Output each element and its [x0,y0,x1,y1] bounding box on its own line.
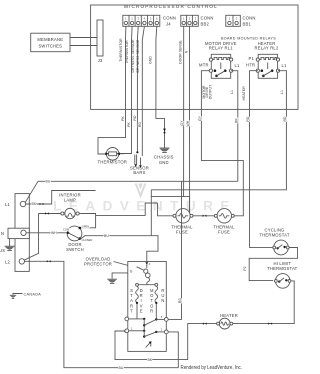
motor terminal 2 [156,327,168,333]
hi limit thermostat [275,274,291,289]
svg-text:BK: BK [32,202,37,206]
svg-text:OUTPUT: OUTPUT [208,85,212,100]
wire door sense row [151,196,183,198]
splice on ground wire [163,129,166,134]
svg-text:G: G [130,270,133,274]
heater element [217,318,233,329]
connector on lamp left wire [45,212,49,214]
svg-text:THERMOSTAT: THERMOSTAT [267,266,297,271]
svg-text:GY: GY [180,120,184,126]
svg-text:BOARD MOUNTED RELAYS: BOARD MOUNTED RELAYS [221,37,276,41]
wire membrane to J3 upper [70,37,97,39]
svg-text:LAMP: LAMP [64,197,76,202]
svg-text:L1: L1 [282,63,288,68]
motor terminal 5 [156,315,168,321]
terminal N [21,230,26,235]
svg-text:L1: L1 [280,90,284,94]
wire lamp right riser to door open [81,214,96,228]
svg-text:THERMISTOR: THERMISTOR [125,40,129,64]
svg-text:N: N [185,50,189,53]
svg-text:MEMBRANE: MEMBRANE [37,37,63,42]
wire lamp left to L2 riser [39,213,61,215]
N terminal box [8,228,29,238]
svg-text:RD: RD [283,116,287,122]
terminal L1 [20,201,25,206]
svg-text:RD: RD [178,298,182,304]
wire J4 pin6 GND to chassis ground [156,26,165,147]
wire RL2 HTR down to cycling thermostat [250,71,274,248]
svg-text:THERMISTOR: THERMISTOR [119,38,123,62]
svg-text:US: US [0,248,5,253]
wire fuse1 to fuse2 [193,215,216,217]
svg-text:DRYNESS SENSOR: DRYNESS SENSOR [131,39,135,72]
svg-text:CONN: CONN [163,16,176,21]
US ground symbol [5,239,15,251]
wire J4 pin1 to thermistor left [98,26,126,154]
thermistor R1 [101,148,124,161]
svg-text:SWITCHES: SWITCHES [38,44,62,49]
svg-text:P1: P1 [249,56,255,61]
svg-text:L1: L1 [235,63,241,68]
svg-text:BU: BU [119,366,124,370]
sensor bar 2 [139,158,142,169]
svg-text:HTR: HTR [246,63,255,68]
wire BU row L1 feed [38,180,238,182]
svg-text:CANADA: CANADA [24,292,42,296]
svg-text:MICROPROCESSOR CONTROL: MICROPROCESSOR CONTROL [124,4,218,9]
motor terminal 4 arrow [145,262,148,265]
run winding [155,286,158,303]
motor G terminal circle and row [125,317,145,321]
wire L2 row to bottom [25,261,179,367]
svg-text:L2: L2 [5,260,11,265]
thermal fuse F2 [214,209,234,223]
wire RL1 L1 side down to BU row [231,71,238,182]
svg-text:SWITCH: SWITCH [66,247,84,252]
centrifugal actuator lever [146,341,152,347]
wire motor terminal 5 riser to BU row [168,181,181,319]
svg-text:DRYNESS SENSOR: DRYNESS SENSOR [136,39,140,72]
connector on heater right wire [268,323,272,325]
overload protector device [137,264,151,285]
svg-text:CONN: CONN [201,16,214,21]
wire J4 pin4 to sensor bar 2 [142,26,144,156]
motor winding top bar [136,283,158,286]
wire hi-limit right down to heater right [231,281,294,324]
svg-text:WH: WH [186,120,190,126]
svg-text:BB2: BB2 [201,22,210,27]
wire door closed riser [150,190,152,236]
svg-text:BARS: BARS [133,170,145,175]
relay RL1 [209,54,232,78]
wire door closed to motor terminal 4 [81,236,158,262]
wire BB2 pin1 door sense down [184,26,190,196]
motor box [128,262,167,352]
svg-text:BB1: BB1 [243,22,252,27]
svg-text:L1: L1 [5,202,11,207]
svg-text:N: N [1,231,4,236]
microprocessor control board box [91,5,298,109]
interior lamp [59,208,81,218]
svg-text:GND: GND [149,56,153,64]
connector on L1 wire [40,203,44,205]
svg-text:RUN: RUN [161,288,164,303]
svg-text:BU: BU [104,234,109,238]
start winding lead to G row [136,303,138,319]
svg-text:RELAY RL1: RELAY RL1 [209,46,233,51]
svg-text:RELAY RL2: RELAY RL2 [255,46,279,51]
watermark logo triangle [135,184,147,199]
connector BB1 [226,15,241,26]
svg-text:BK: BK [234,118,238,123]
motor terminal 1 circle and row [125,326,145,332]
svg-text:J4: J4 [166,22,171,27]
svg-text:FUSE: FUSE [218,230,230,235]
wire BB2 pin2 N down to thermal fuse 1 right [189,26,191,216]
wire membrane to J3 lower [70,45,97,47]
wire fuse2 right to riser [234,190,243,216]
svg-text:CLOSED: CLOSED [82,238,93,242]
svg-text:WH: WH [51,231,57,235]
svg-text:COM: COM [63,228,69,232]
wire L1 diagonal to BU row [25,181,38,202]
connector J3 [97,20,103,56]
wire L1 BK to lamp riser [26,191,96,205]
connector BB2 [181,15,199,26]
wire RL1 MTR output [201,71,243,190]
svg-text:OPEN: OPEN [82,224,89,228]
centrifugal switch stack [143,318,158,338]
relay RL2 [256,54,279,78]
wire door sense branch [96,203,158,215]
svg-text:DOOR SENSE: DOOR SENSE [179,40,183,64]
earth ground symbol at motor [107,279,117,283]
wire heater left to BK row riser [115,324,217,360]
svg-text:PK: PK [121,116,125,121]
svg-text:PK: PK [127,122,131,127]
svg-text:GY: GY [198,115,202,121]
arrow into motor terminal 1 [124,330,127,333]
svg-text:RD: RD [246,116,250,122]
connector on heater left wire [203,323,207,325]
wire cycling right wrap to hi-limit left [249,248,297,281]
svg-text:Rendered by LeadVenture, Inc.: Rendered by LeadVenture, Inc. [181,365,243,371]
svg-text:RD: RD [133,115,137,121]
svg-text:BK: BK [148,358,153,362]
junction sensor bar 1 [136,151,138,153]
svg-text:BU: BU [46,180,51,184]
overload label leader line [114,262,138,269]
wire RL2 L1 side down to distribution row [151,71,286,190]
cycling thermostat [273,240,289,255]
terminal strip [15,194,29,272]
wire motor G to earth ground [112,273,128,279]
svg-text:RD: RD [138,122,142,128]
connector between fuses [203,215,207,217]
svg-text:START: START [130,288,133,314]
terminal L2 [19,259,24,264]
wire jog to fuse1 right [189,197,191,216]
svg-text:GND: GND [159,160,169,165]
connector J4 [123,15,160,26]
svg-text:FUSE: FUSE [176,230,188,235]
svg-text:CONN: CONN [243,16,256,21]
run winding lead to terminal 5 row [155,303,157,320]
door switch S1 [67,226,82,241]
svg-text:HEATER: HEATER [220,313,238,318]
svg-text:HEATER: HEATER [242,86,246,101]
svg-text:MTR: MTR [199,63,209,68]
wire N to door switch COM [26,232,66,234]
start winding [136,286,139,303]
svg-text:THERMOSTAT: THERMOSTAT [259,232,289,237]
svg-text:L1: L1 [230,90,234,94]
chassis ground symbol [160,148,170,153]
wire lamp riser to L2 diagonal [24,214,39,261]
wire J4 pin3 to sensor bar 1 [136,26,139,152]
connector on L2 wire [47,260,51,262]
svg-text:PROTECTOR: PROTECTOR [84,262,112,267]
svg-text:P2: P2 [243,266,247,270]
canada marker [10,294,23,299]
sensor bar 1 [134,155,137,168]
svg-text:J3: J3 [98,58,103,63]
svg-text:THERMISTOR: THERMISTOR [97,160,127,165]
wire motor terminal 2 to L2 bottom row [168,332,178,368]
thermal fuse F1 [173,209,193,223]
wire J4 pin2 to thermistor right [120,26,133,153]
wire fuse1 left riser [158,203,175,216]
membrane switches box [31,33,70,52]
